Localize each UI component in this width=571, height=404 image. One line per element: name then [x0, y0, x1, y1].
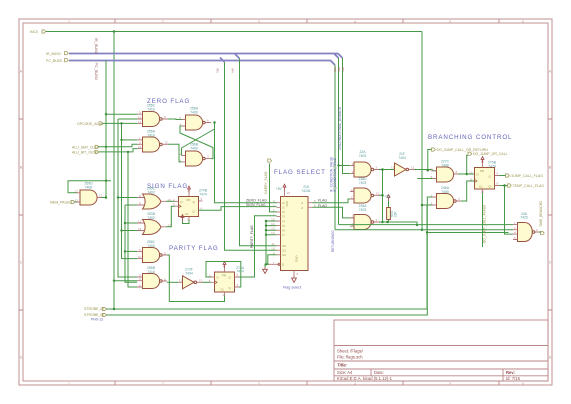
- gate G7 22A 7403: [351, 150, 380, 177]
- wire G2 out to G4 pin1: [168, 144, 182, 162]
- svg-text:7400: 7400: [441, 190, 449, 194]
- svg-text:PC_BUS0: PC_BUS0: [94, 63, 98, 80]
- junction E rail: [265, 263, 267, 265]
- junction INC rail tap: [113, 30, 116, 33]
- gate G3 256A 7400: [180, 107, 212, 131]
- hierarchical label OPCODE_ALU0: [77, 122, 103, 126]
- wire R1 to G6 pin4: [114, 280, 137, 282]
- svg-text:BRANCHING CONTROL: BRANCHING CONTROL: [428, 134, 512, 141]
- flip-flop FF2 274A 7474: [209, 265, 245, 297]
- svg-text:1: 1: [68, 382, 70, 386]
- svg-text:7474: 7474: [488, 164, 496, 168]
- svg-text:7402: 7402: [147, 191, 155, 195]
- svg-text:PR: PR: [480, 169, 484, 173]
- svg-text:7400: 7400: [85, 185, 93, 189]
- gate G9 235A 7403: [350, 204, 379, 229]
- svg-text:IR7: IR7: [341, 67, 345, 72]
- wire R4 to OR2 pin11: [125, 222, 138, 224]
- gate G2 255A 7410: [138, 130, 169, 153]
- svg-text:CL: CL: [479, 185, 483, 189]
- svg-text:C: C: [549, 261, 552, 265]
- svg-text:12: 12: [138, 227, 142, 231]
- svg-text:Flag select: Flag select: [283, 286, 302, 290]
- hierarchical label TEMP_CALL_FLAG: [508, 184, 545, 188]
- wire DO_JUMP_CALL_OR_RETURN down to inverter output node: [428, 150, 432, 171]
- wire FF3 Qbar to label and down: [499, 186, 513, 235]
- junction INC at 246A pin2: [421, 204, 424, 207]
- wire left rail R4: [125, 205, 138, 282]
- svg-text:7410: 7410: [147, 270, 155, 274]
- svg-text:C: C: [20, 261, 23, 265]
- svg-text:4: 4: [354, 382, 356, 386]
- svg-text:D: D: [217, 276, 219, 280]
- svg-text:10: 10: [430, 167, 434, 171]
- wire 246A out up to FF3 C pin: [461, 181, 475, 201]
- wire INC net horizontal: [46, 31, 422, 33]
- junction R0 G1 pin9: [105, 113, 107, 115]
- wire strobe line1: [106, 205, 509, 309]
- svg-text:10K: 10K: [393, 210, 397, 217]
- svg-text:TEMP_CALL_FLAG: TEMP_CALL_FLAG: [513, 184, 545, 188]
- svg-text:S0: S0: [282, 244, 286, 248]
- svg-text:MEM_PAGE0: MEM_PAGE0: [50, 201, 72, 205]
- svg-text:IF_CONDITION_TRUE: IF_CONDITION_TRUE: [333, 157, 337, 192]
- flip-flop FF3 275B 7474: [469, 160, 499, 194]
- svg-text:7403: 7403: [359, 181, 367, 185]
- gate OR1 255C 7402: [138, 187, 172, 209]
- svg-text:13: 13: [481, 190, 485, 194]
- junction wired-and top: [381, 168, 384, 171]
- junction G0 out on R0: [105, 196, 107, 198]
- svg-text:FLAG: FLAG: [318, 199, 327, 203]
- junction zero latch out: [213, 121, 216, 124]
- svg-text:IR6: IR6: [337, 67, 341, 72]
- svg-text:D: D: [20, 356, 23, 360]
- wire left rail R3: [122, 123, 138, 258]
- svg-text:PARITY_FLAG: PARITY_FLAG: [250, 225, 254, 248]
- svg-text:7403: 7403: [359, 154, 367, 158]
- TITLE BLOCK: [334, 320, 548, 381]
- gate OR2 253B 7402: [138, 212, 172, 234]
- hierarchical label INC0: [30, 30, 46, 34]
- svg-text:I5: I5: [282, 224, 285, 228]
- wire OR1 out to FF1 D: [166, 200, 175, 202]
- svg-text:Rev:: Rev:: [506, 370, 515, 375]
- wire FF2 Q up to mux I3: [239, 216, 277, 277]
- svg-text:I4: I4: [282, 219, 285, 223]
- svg-text:Date:: Date:: [374, 370, 384, 375]
- svg-text:Title:: Title:: [337, 363, 348, 368]
- svg-text:STROBE_ID: STROBE_ID: [84, 307, 104, 311]
- svg-text:7402: 7402: [147, 216, 155, 220]
- svg-text:I2: I2: [282, 210, 285, 214]
- svg-text:7404: 7404: [398, 156, 406, 160]
- svg-text:13: 13: [138, 145, 142, 149]
- svg-text:7400: 7400: [147, 244, 155, 248]
- svg-text:7420: 7420: [520, 216, 528, 220]
- wire mux S2 tie to E: [268, 255, 277, 264]
- svg-text:7403: 7403: [359, 208, 367, 212]
- svg-text:CARRY_FLAG: CARRY_FLAG: [264, 171, 268, 194]
- power GND mux E pin: [263, 264, 269, 273]
- bus IR_BUS: [69, 54, 343, 59]
- wire bus entry verticals right group: [335, 58, 350, 230]
- wire left rail R2: [118, 119, 138, 277]
- svg-text:7404: 7404: [185, 271, 193, 275]
- svg-text:CL: CL: [185, 212, 189, 216]
- wire 227C pin9 from riser: [417, 178, 436, 180]
- hierarchical label DO_JUMP_CALL_OR_RETURN: [432, 148, 489, 152]
- wire 24A pin2 row from IF_CONDITION_FALSE vertical: [335, 229, 513, 231]
- svg-text:5: 5: [449, 382, 451, 386]
- svg-text:10: 10: [271, 247, 275, 251]
- wire FF3 Q to label: [499, 175, 506, 177]
- svg-text:7410: 7410: [147, 133, 155, 137]
- svg-text:11: 11: [271, 242, 274, 246]
- wire DO_JUMP_OR_CALL vertical to FF3 D row: [467, 155, 468, 174]
- wire FF1 CLR hook to +5V: [183, 220, 190, 224]
- wire R2 to OR1 pin8: [118, 197, 138, 199]
- inverter INV2 21F 7404: [391, 152, 415, 176]
- svg-text:13: 13: [179, 279, 183, 283]
- svg-text:3: 3: [258, 382, 260, 386]
- power +5V mux vcc: [283, 184, 286, 190]
- svg-text:Size: A4: Size: A4: [337, 370, 353, 375]
- svg-text:7408: 7408: [441, 164, 449, 168]
- wire wired-AND node vertical: [379, 170, 417, 226]
- svg-text:IR5: IR5: [333, 67, 337, 72]
- hierarchical label STROBE_ID lower: [84, 313, 106, 317]
- junction wired-and mid: [381, 194, 384, 197]
- gate G4 256B 7400: [180, 143, 212, 167]
- gate G11 246A 7400: [431, 186, 462, 208]
- svg-text:PARITY FLAG: PARITY FLAG: [169, 245, 219, 252]
- junction I4: [265, 224, 267, 226]
- svg-text:ALU_SER_CLK0: ALU_SER_CLK0: [72, 145, 99, 149]
- svg-text:Sheet: /Flags/: Sheet: /Flags/: [337, 348, 364, 353]
- inverter INV1 272F 7404: [167, 268, 203, 289]
- svg-text:/JUMP_CALL_FLAG: /JUMP_CALL_FLAG: [511, 174, 544, 178]
- junction TEMP_CALL tap: [503, 184, 506, 187]
- power +5V FF3 preset: [481, 157, 484, 163]
- wire G5 out down around to FF2 CLR: [167, 255, 225, 302]
- svg-text:SIGN_FLAG: SIGN_FLAG: [246, 203, 266, 207]
- svg-text:7400: 7400: [190, 146, 198, 150]
- wire CARRY_FLAG drop to I2: [270, 164, 277, 212]
- svg-text:11: 11: [469, 178, 472, 182]
- gate U0 259D 7400 left NAND: [75, 182, 103, 206]
- wire mux out /FLAG down to 235A pin1: [313, 207, 355, 218]
- wire ALU_SER_CLK0 to G2 pin2: [99, 144, 138, 147]
- junction R4 OR2 pin11: [124, 222, 126, 224]
- wire 24A output to hierarchical label: [539, 231, 542, 233]
- mux U1 215 74151: [269, 185, 316, 276]
- svg-text:10: 10: [138, 116, 142, 120]
- wire strobe line2: [106, 197, 437, 315]
- wire latch cross feedback B G3out to G4 pin2: [182, 123, 215, 156]
- svg-text:13: 13: [75, 199, 79, 203]
- svg-text:S2: S2: [282, 253, 286, 257]
- svg-text:Z: Z: [301, 206, 303, 210]
- svg-text:D: D: [477, 173, 479, 177]
- hierarchical label PC_BUS0: [46, 59, 68, 63]
- hierarchical label MEM_PAGE0: [50, 200, 75, 204]
- wire G0 loop pin12 up and over to rails: [68, 181, 111, 193]
- wire INC rail down to strobe line: [113, 32, 115, 310]
- svg-text:+5V: +5V: [385, 195, 392, 199]
- hierarchical label DO_JUMP_OR_CALL: [468, 152, 508, 156]
- hierarchical label /JUMP_CALL_FLAG: [506, 174, 544, 178]
- bus PC_BUS: [69, 61, 335, 66]
- svg-text:IR_BUS0: IR_BUS0: [46, 52, 61, 56]
- svg-text:4: 4: [354, 20, 356, 24]
- svg-text:2: 2: [162, 382, 164, 386]
- wire 24A pin1 row from IF_CONDITION_TRUE vertical: [339, 224, 514, 226]
- wire bus entry drops S0 S1 at x 224 239: [225, 59, 277, 251]
- junction I4: [265, 220, 267, 222]
- wire mux unused inputs rail to E: [266, 221, 277, 264]
- svg-text:7474: 7474: [199, 192, 207, 196]
- wire MEM_PAGE0 to G0 pin13: [75, 201, 77, 203]
- wire R4 to G5 pin9: [125, 250, 137, 252]
- svg-text:7410: 7410: [147, 107, 155, 111]
- junction R3 OR2 pin12: [120, 229, 122, 231]
- svg-text:74151: 74151: [301, 189, 311, 193]
- svg-text:CL: CL: [221, 288, 225, 292]
- svg-text:11: 11: [376, 191, 379, 195]
- svg-text:2: 2: [162, 20, 164, 24]
- svg-text:12: 12: [165, 141, 169, 145]
- svg-text:File: flags.sch: File: flags.sch: [337, 355, 363, 360]
- wire latch cross feedback A G4out to G3 pin4: [180, 126, 213, 159]
- gate G6 255B 7410: [137, 266, 167, 289]
- svg-text:PC_BUS0: PC_BUS0: [46, 59, 62, 63]
- power +5V FF1 clear: [181, 215, 184, 221]
- svg-text:E: E: [282, 263, 284, 267]
- svg-text:3: 3: [258, 20, 260, 24]
- svg-text:S1: S1: [282, 249, 286, 253]
- svg-text:IR3: IR3: [216, 68, 220, 73]
- svg-text:I7: I7: [282, 233, 285, 237]
- svg-text:OPCODE_ALU0: OPCODE_ALU0: [77, 122, 103, 126]
- gate G8 235D 7403: [350, 177, 379, 203]
- wire INC vertical drop to branching area: [422, 32, 437, 230]
- junction R4 G5 pin9: [124, 250, 126, 252]
- svg-text:GND: GND: [295, 256, 299, 262]
- svg-text:D: D: [181, 200, 183, 204]
- svg-text:11: 11: [138, 220, 141, 224]
- hierarchical label rotated TAKE_BRANCH0: [539, 201, 545, 235]
- junction R3 G2 pin1: [120, 139, 122, 141]
- gate G12 24A 7420: [513, 212, 539, 242]
- svg-text:Z: Z: [301, 201, 303, 205]
- wire INV2 out to 227C pin10: [414, 170, 437, 171]
- wire G1 out to G3 pin5: [168, 118, 182, 121]
- svg-text:FLAG: FLAG: [318, 204, 327, 208]
- svg-text:12: 12: [411, 166, 415, 170]
- junction wired-and bottom: [381, 221, 384, 224]
- svg-text:Id: 7/15: Id: 7/15: [506, 376, 521, 381]
- junction DO_JUMP_CALL_OR_RETURN tap: [427, 169, 430, 172]
- wire ALU_BIT_OUT0 to G2 pin13: [99, 149, 138, 152]
- power +5V FF2 preset: [223, 262, 226, 268]
- svg-text:PH0-13: PH0-13: [91, 317, 103, 321]
- svg-text:12: 12: [469, 171, 473, 175]
- svg-text:12: 12: [351, 188, 355, 192]
- svg-text:IR4: IR4: [231, 68, 235, 73]
- gate G10 227C 7408: [430, 160, 459, 182]
- svg-text:IR_BUS0: IR_BUS0: [94, 38, 98, 54]
- junction SER_CLK on R0: [105, 146, 107, 148]
- power +5V resistor top: [387, 195, 390, 201]
- svg-text:6: 6: [522, 20, 524, 24]
- svg-text:I6: I6: [282, 229, 285, 233]
- gate G1 255C 7410: [138, 104, 169, 127]
- svg-text:I3: I3: [282, 215, 285, 219]
- junction OPCODE on R3: [120, 122, 122, 124]
- hierarchical label ALU_BIT_OUT0: [72, 150, 99, 154]
- hierarchical label rotated CARRY_FLAG: [264, 159, 271, 194]
- wire R0 to G1 pin9: [106, 113, 138, 115]
- resistor R34 pull-up: [383, 201, 398, 222]
- svg-text:DO_JUMP_OR_CALL: DO_JUMP_OR_CALL: [473, 152, 508, 156]
- svg-text:10: 10: [138, 255, 142, 259]
- hierarchical label STROBE_ID upper: [84, 307, 106, 311]
- wire G0 output to R0: [101, 197, 106, 199]
- junction I6: [265, 234, 267, 236]
- wire 227C out to FF3 D: [458, 173, 475, 175]
- svg-text:16: 16: [287, 191, 291, 195]
- svg-text:TAKE_BRANCH0: TAKE_BRANCH0: [539, 201, 543, 227]
- wire FF2 toggle loop Qbar to D: [206, 262, 241, 288]
- svg-text:6: 6: [522, 382, 524, 386]
- svg-text:DO_JUMP_CALL_FLAG0: DO_JUMP_CALL_FLAG0: [483, 205, 487, 243]
- svg-text:FLAG SELECT: FLAG SELECT: [274, 169, 326, 176]
- hierarchical label IR_BUS0: [46, 52, 68, 56]
- svg-text:1: 1: [68, 20, 70, 24]
- svg-text:INC0: INC0: [30, 30, 38, 34]
- svg-text:VCC: VCC: [285, 201, 289, 207]
- svg-text:RETURNING0: RETURNING0: [331, 230, 335, 252]
- junction I5: [265, 229, 267, 231]
- power +5V FF1 preset: [188, 186, 191, 192]
- wire OPCODE_ALU0 to gate: [103, 122, 138, 124]
- wire left rail R5: [128, 152, 137, 287]
- wire R3 to OR2 pin12: [122, 230, 138, 232]
- junction strobe line1 INC rail: [113, 308, 116, 311]
- wire OR2 out up to FF1 C: [166, 206, 175, 227]
- hierarchical label ALU_SER_CLK0: [72, 145, 99, 149]
- svg-text:UNCONDITIONAL_BRANCH: UNCONDITIONAL_BRANCH: [338, 106, 342, 150]
- gate G5 256C 7400: [137, 240, 167, 263]
- wire mux out FLAG to 235D pin13: [313, 199, 355, 203]
- svg-text:KiCad E.D.A. kicad (5.1.12)-1: KiCad E.D.A. kicad (5.1.12)-1: [337, 376, 393, 381]
- junction BIT_OUT on R5: [127, 151, 129, 153]
- junction R2 OR1 pin8: [117, 196, 119, 198]
- svg-text:ALU_BIT_OUT0: ALU_BIT_OUT0: [72, 151, 98, 155]
- svg-text:PR: PR: [187, 198, 191, 202]
- svg-text:D: D: [549, 356, 552, 360]
- wire INV1 out to FF2 C: [202, 281, 211, 283]
- svg-text:5: 5: [449, 20, 451, 24]
- junction FF3 D tap: [465, 173, 468, 176]
- svg-text:13: 13: [391, 166, 395, 170]
- wire FF1 Qbar to mux I1: [199, 207, 277, 211]
- svg-text:7400: 7400: [190, 110, 198, 114]
- junction loop on R0: [105, 180, 107, 182]
- svg-text:+5V: +5V: [276, 187, 283, 191]
- wire ZERO_FLAG rail down to mux: [215, 123, 277, 203]
- svg-text:PR: PR: [222, 274, 226, 278]
- wire R3 to G2 pin1: [122, 139, 138, 141]
- svg-text:11: 11: [138, 120, 141, 124]
- flip-flop FF1 274B 7474: [173, 189, 208, 222]
- wire FF3 CLR down: [482, 193, 484, 247]
- junction R1 G6 pin4: [113, 280, 115, 282]
- power GND mux pin8: [292, 276, 297, 282]
- svg-text:13: 13: [351, 196, 355, 200]
- wire bus tap R0 rail from PC_BUS: [105, 61, 107, 200]
